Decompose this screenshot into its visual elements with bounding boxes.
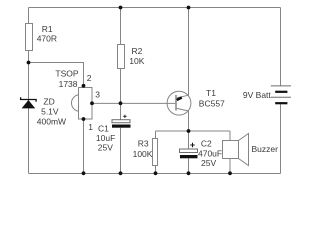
svg-text:25V: 25V [201,158,216,168]
junction dot ground buzzer [228,171,232,175]
wire R1 bottom through ZD to bottom rail [28,51,30,174]
svg-text:R1: R1 [42,24,53,34]
wire TSOP pin 1 to ground rail [83,119,85,174]
IR receiver TSOP 1738 [55,69,92,119]
svg-text:9V Batt: 9V Batt [243,90,272,100]
junction dot TSOP pin 3 [90,101,94,105]
wire battery top [280,8,282,86]
junction node A [27,61,31,65]
junction dot ground TSOP [82,171,86,175]
junction dot ground R3 [154,171,158,175]
resistor R1 [26,24,33,51]
wire R3 top [155,131,157,139]
svg-text:ZD: ZD [43,96,54,106]
svg-text:C1: C1 [98,124,109,134]
svg-text:10K: 10K [129,56,144,66]
wire TSOP pin 3 to base [92,102,176,104]
svg-text:5.1V: 5.1V [41,107,59,117]
svg-text:100K: 100K [133,149,153,159]
transistor T1 BC557 [167,88,225,115]
wire C2 top [188,131,190,149]
wire C1 to ground rail [120,128,122,174]
wire emitter to top rail [188,8,190,96]
svg-text:C2: C2 [201,139,212,149]
wire R1 top [28,8,30,24]
wire battery bottom [280,104,282,174]
capacitor C2 [180,139,223,168]
zener diode ZD [21,96,66,126]
resistor R2 [118,45,125,69]
svg-text:470uF: 470uF [198,148,222,158]
junction dot ground C2 [187,171,191,175]
resistor R3 [153,139,158,166]
svg-text:BC557: BC557 [199,99,225,109]
wire buzzer top [229,131,231,141]
wire R2 top [120,8,122,45]
svg-text:T1: T1 [206,88,216,98]
junction dot R2/C1 node [119,101,123,105]
svg-text:2: 2 [87,73,92,83]
junction dot top rail R2 [119,6,123,10]
wire R2 bottom to node [120,69,122,121]
svg-text:25V: 25V [98,143,113,153]
wire collector horizontal [156,130,231,132]
junction dot TSOP pin 1 [82,117,86,121]
junction dot top rail emitter [187,6,191,10]
wire bottom rail [29,173,281,175]
wire C2 bottom [188,158,190,173]
wire R3 bottom [155,166,157,174]
wire node A to TSOP pin 2 [29,63,84,88]
svg-text:R2: R2 [132,46,143,56]
svg-text:TSOP: TSOP [55,69,78,79]
battery 9V [243,86,291,103]
buzzer [223,134,279,166]
junction dot ground C1 [119,171,123,175]
svg-text:R3: R3 [138,139,149,149]
wire collector down [188,111,190,132]
svg-text:Buzzer: Buzzer [252,144,279,154]
junction dot collector node [187,129,191,133]
wire top rail [29,7,281,9]
junction dot TSOP pin 2 [82,84,86,88]
svg-text:3: 3 [95,90,100,100]
svg-text:470R: 470R [37,34,57,44]
svg-text:1: 1 [88,122,93,132]
svg-text:400mW: 400mW [37,117,66,127]
capacitor C1 [96,115,131,153]
svg-text:1738: 1738 [59,79,78,89]
wire buzzer bottom [229,159,231,174]
